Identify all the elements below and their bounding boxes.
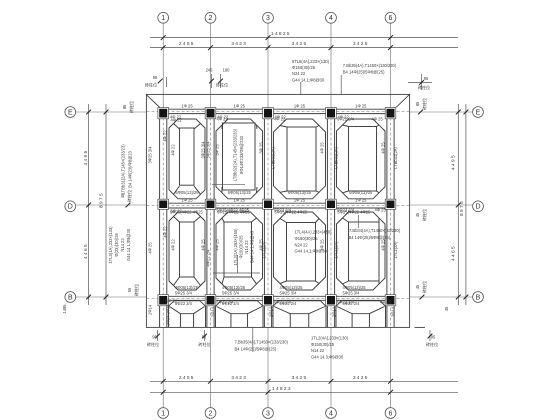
- svg-text:E: E: [68, 109, 73, 116]
- svg-text:Φ(23)(30)/25: Φ(23)(30)/25: [114, 233, 119, 257]
- panel DB bay 34 octagon: [274, 212, 326, 290]
- beam row E: [147, 109, 410, 113]
- svg-text:1Φ 25: 1Φ 25: [234, 103, 246, 108]
- column grid3-D: [263, 199, 274, 209]
- svg-text:4Φ 25: 4Φ 25: [320, 142, 325, 154]
- grid bubble E left: [65, 107, 76, 118]
- panel DB bay 12 octagon: [169, 212, 205, 290]
- dimension chain right: [450, 104, 460, 305]
- brick column mark left E: [122, 101, 134, 113]
- brick column mark left D: [120, 190, 132, 208]
- rebar text 6Φ22 2/4 at 342,304: [343, 301, 361, 306]
- svg-text:Φ150(30)/25: Φ150(30)/25: [295, 236, 319, 241]
- note block bottom TBb35: [235, 328, 289, 353]
- svg-text:45: 45: [444, 306, 449, 311]
- svg-text:Φ150(30)/25: Φ150(30)/25: [292, 65, 316, 70]
- svg-text:1Φ 25: 1Φ 25: [234, 197, 246, 202]
- rebar label 3Φ25 3/4 at 151,155: [148, 146, 153, 164]
- note bay DB46 TBb34: [349, 215, 401, 240]
- rebar label 3Φ 25 at 218,150: [215, 144, 220, 156]
- note block top TBb35: [341, 63, 397, 94]
- rebar label 4Φ 25 at 151,248: [148, 242, 153, 254]
- svg-text:6Φ22 2/4: 6Φ22 2/4: [274, 207, 292, 212]
- beam grid 6: [387, 108, 394, 328]
- column grid2-D: [205, 199, 216, 209]
- rebar text 6Φ05(13)/25 at 239,195: [228, 190, 252, 195]
- svg-text:B4 14Φ(25)/5Φ8@(25): B4 14Φ(25)/5Φ8@(25): [349, 235, 391, 240]
- note block top TL5: [292, 59, 330, 94]
- rebar text 6Φ22 2/4 at 337,211: [337, 207, 355, 212]
- rebar text 6Φ22 2/4 at 216,303: [217, 300, 235, 305]
- rebar text 5Φ25 3/4 at 279,294: [280, 290, 298, 295]
- rebar text 4Φ05(13)/25 at 279,288: [280, 285, 304, 290]
- svg-text:2Φ14: 2Φ14: [148, 304, 153, 315]
- svg-text:4Φ 25: 4Φ 25: [380, 300, 392, 305]
- brick column mark right D: [415, 209, 427, 221]
- svg-text:2Φ14: 2Φ14: [211, 306, 216, 317]
- corner diagonal top-right: [396, 94, 409, 107]
- svg-text:8975: 8975: [99, 192, 105, 208]
- rebar text 6Φ25/4Φ22 4Φ25 at 216,211: [217, 207, 250, 212]
- svg-text:1Φ 25: 1Φ 25: [294, 197, 306, 202]
- svg-text:53: 53: [202, 335, 207, 340]
- svg-text:95: 95: [153, 75, 158, 80]
- svg-text:8Φ14Φ233/Φ8@233: 8Φ14Φ233/Φ8@233: [239, 135, 244, 174]
- beam label LTBb31(2A) at 396,158: [393, 146, 398, 168]
- panel ED bay 34 octagon: [274, 119, 326, 199]
- svg-text:4Φ 22: 4Φ 22: [171, 239, 176, 251]
- svg-text:砖柱位: 砖柱位: [126, 190, 132, 202]
- svg-text:2Φ14: 2Φ14: [391, 306, 396, 317]
- panel ED bay 23 inner rect: [223, 123, 256, 190]
- svg-text:95: 95: [415, 101, 420, 106]
- svg-text:3Φ 25: 3Φ 25: [259, 142, 264, 154]
- svg-text:4Φ 25: 4Φ 25: [381, 239, 386, 251]
- panel ED bay 46 corner diagonals: [343, 125, 380, 193]
- panel DB bay 12 corner diagonals: [174, 217, 201, 286]
- grid bubble 6 top: [385, 12, 396, 23]
- rebar text 1Φ 25 at 239,201: [234, 197, 246, 202]
- rebar text 6Φ 22 at 170,212: [171, 208, 183, 213]
- svg-text:N24 22: N24 22: [292, 71, 306, 76]
- svg-text:14825: 14825: [271, 31, 291, 37]
- note rotated bay ED23 TBb32: [212, 128, 245, 184]
- svg-text:Φ150(30)/25: Φ150(30)/25: [311, 342, 335, 347]
- rebar text 6Φ22 2/4 at 279,304: [280, 301, 298, 306]
- grid bubble 3 bottom: [263, 408, 274, 419]
- rebar label 2Φ14 2Φ14 at 169,315: [166, 304, 171, 326]
- svg-text:6Φ25/4Φ22 4Φ25: 6Φ25/4Φ22 4Φ25: [217, 207, 250, 212]
- rebar text 5Φ25 3/4 at 342,294: [343, 290, 361, 295]
- grid bubble B right: [473, 292, 484, 303]
- grid bubble 6 bottom: [385, 408, 396, 419]
- svg-text:95: 95: [431, 335, 436, 340]
- rebar label 3Φ 25 at 262,148: [259, 142, 264, 154]
- panel ED bay 34 inner rect: [287, 127, 316, 191]
- panel ED bay 34 corner diagonals: [280, 126, 319, 193]
- witness tick right E: [418, 110, 423, 115]
- rebar text 6Φ05(13)/25 at 187,195: [175, 190, 199, 195]
- rebar label 4Φ 22 at 166,136: [163, 130, 168, 142]
- vertical grid line 2: [210, 24, 212, 108]
- brick column mark top grid2 245/190: [206, 68, 231, 89]
- dimension total left: [99, 104, 109, 305]
- rebar text 5Φ25 3/4 at 222,294: [222, 290, 240, 295]
- svg-text:6Φ22 2/4: 6Φ22 2/4: [274, 300, 292, 305]
- beam row B: [147, 296, 410, 300]
- svg-text:1Φ 25: 1Φ 25: [181, 103, 193, 108]
- svg-text:4Φ22 2/4: 4Φ22 2/4: [206, 249, 211, 267]
- rebar text 4Φ 25 at 380,303: [380, 300, 392, 305]
- rebar label 4Φ 25 at 262,245: [259, 239, 264, 251]
- svg-text:砖柱位: 砖柱位: [198, 341, 210, 347]
- rebar text 6Φ25(4Φ22 4Φ25 at 274,213: [275, 209, 309, 214]
- svg-text:190: 190: [223, 68, 231, 73]
- rebar text 1Φ 25 at 187,201: [181, 197, 193, 202]
- svg-text:3Φ25 3/4: 3Φ25 3/4: [148, 146, 153, 164]
- svg-text:2455: 2455: [179, 375, 195, 381]
- rebar text 6Φ 22 at 166,302: [166, 299, 178, 304]
- svg-text:6Φ05(13)/25: 6Φ05(13)/25: [288, 190, 312, 195]
- svg-text:D: D: [475, 204, 480, 211]
- grid bubble 1 top: [158, 12, 169, 23]
- svg-text:6Φ 22: 6Φ 22: [171, 208, 183, 213]
- panel ED bay 46 octagon: [337, 119, 386, 199]
- svg-text:4Φ05(13)/25: 4Φ05(13)/25: [175, 285, 199, 290]
- svg-text:2Φ14 2Φ14: 2Φ14 2Φ14: [166, 304, 171, 326]
- rebar text 6Φ22 2/4 at 337,120: [337, 116, 355, 121]
- rebar text 4Φ 22 at 274,122: [275, 115, 287, 120]
- svg-text:B4 14Φ(25)/5Φ8@(25): B4 14Φ(25)/5Φ8@(25): [235, 347, 277, 352]
- svg-text:4Φ 25: 4Φ 25: [148, 242, 153, 254]
- rebar text 4Φ05(13)/25 at 175,288: [175, 285, 199, 290]
- column grid6-E: [385, 108, 396, 119]
- svg-text:4Φ 22: 4Φ 22: [171, 144, 176, 156]
- panel DB bay 12 inner rect: [180, 222, 195, 277]
- rebar text 6Φ25(4Φ22 4Φ25 at 337,213: [338, 209, 372, 214]
- svg-text:1: 1: [161, 15, 165, 22]
- panel DB bay 46 inner rect: [349, 222, 380, 281]
- svg-text:B: B: [476, 294, 481, 301]
- column grid4-D: [326, 199, 337, 209]
- dimension total bottom: [150, 386, 458, 395]
- svg-text:6: 6: [389, 410, 393, 417]
- panel DB bay 23 octagon: [216, 212, 263, 290]
- horizontal grid line B: [75, 296, 146, 298]
- panel ED bay 23 octagon: [216, 119, 263, 199]
- svg-text:4Φ 25: 4Φ 25: [259, 239, 264, 251]
- panel DB bay 23 corner diagonals: [222, 218, 257, 284]
- column grid2-E: [205, 108, 216, 119]
- svg-text:4Φ 25: 4Φ 25: [375, 207, 387, 212]
- svg-text:3: 3: [266, 410, 270, 417]
- grid bubble 4 top: [326, 12, 337, 23]
- column grid1-D: [158, 199, 169, 209]
- svg-text:4Φ 22: 4Φ 22: [171, 117, 183, 122]
- dimension total right: [459, 104, 468, 305]
- rebar text 6Φ22 2/4 at 274,303: [274, 300, 292, 305]
- note bay DB34 TL4: [295, 230, 333, 254]
- note block bottom TL2: [311, 336, 349, 360]
- svg-text:砖柱位: 砖柱位: [133, 284, 139, 296]
- svg-text:2: 2: [209, 15, 213, 22]
- svg-text:1TL3(1A),233×(133): 1TL3(1A),233×(133): [108, 226, 113, 264]
- rebar label 2Φ14 at 214,312: [211, 306, 216, 317]
- svg-text:3425: 3425: [353, 41, 369, 47]
- svg-text:4Φ 25: 4Φ 25: [201, 239, 206, 251]
- svg-text:4Φ05(13)/25: 4Φ05(13)/25: [222, 285, 246, 290]
- svg-text:4Φ 22: 4Φ 22: [163, 130, 168, 142]
- panel DB bay 46 corner diagonals: [343, 218, 380, 284]
- bottom strip panel bay 34: [273, 301, 326, 328]
- svg-text:6Φ 22: 6Φ 22: [166, 299, 178, 304]
- beam label 1TL1(2A) at 265,250: [262, 241, 267, 259]
- panel DB bay 34 inner rect: [287, 223, 316, 282]
- brick column mark bottom-right 95: [426, 330, 438, 347]
- dimension chain top: [150, 41, 458, 50]
- grid bubble 1 bottom: [158, 408, 169, 419]
- rebar text 6Φ05(13)/25 at 360,195: [349, 190, 373, 195]
- svg-text:G44 14 1,Φ9@43: G44 14 1,Φ9@43: [250, 230, 255, 263]
- svg-text:4465: 4465: [83, 243, 89, 259]
- rebar text 4Φ05(13)/25 at 342,288: [343, 285, 367, 290]
- svg-text:95: 95: [424, 76, 429, 81]
- svg-text:245: 245: [206, 68, 214, 73]
- svg-text:55: 55: [127, 287, 132, 292]
- svg-text:B: B: [68, 294, 73, 301]
- rebar label 4Φ22 2/4 at 209,258: [206, 249, 211, 267]
- rebar text 6Φ22 1/4 at 337,303: [337, 300, 355, 305]
- vertical grid line 3: [267, 24, 269, 108]
- panel DB bay 46 octagon: [337, 212, 386, 290]
- grid bubble B left: [65, 292, 76, 303]
- svg-text:2Φ14: 2Φ14: [269, 306, 274, 317]
- svg-text:4Φ 22: 4Φ 22: [217, 116, 229, 121]
- column grid1-E: [158, 108, 169, 119]
- bottom edge fragment right: [415, 326, 426, 328]
- svg-text:4495: 4495: [450, 154, 456, 170]
- svg-text:G44 14,1;Φ8@30: G44 14,1;Φ8@30: [292, 77, 325, 82]
- rebar label 4Φ 22 at 174,245: [171, 239, 176, 251]
- svg-text:4Φ 25: 4Φ 25: [381, 142, 386, 154]
- rebar text 4Φ 22 at 170,121: [171, 117, 183, 122]
- column grid2-B: [205, 295, 216, 306]
- rebar text 1Φ 25 at 239,107: [234, 103, 246, 108]
- svg-text:LTBb31(2A): LTBb31(2A): [270, 146, 275, 168]
- dimension total top: [150, 31, 458, 40]
- svg-text:4: 4: [329, 15, 333, 22]
- beam label 1TL1(2A) at 396,250: [393, 241, 398, 259]
- svg-text:4Φ 22: 4Φ 22: [163, 226, 168, 238]
- panel ED bay 23 corner diagonals: [222, 125, 257, 193]
- dimension chain left: [83, 104, 91, 305]
- svg-text:5Φ25 3/4: 5Φ25 3/4: [175, 290, 193, 295]
- rebar label 4Φ 22 at 174,150: [171, 144, 176, 156]
- svg-text:4Φ 25: 4Φ 25: [320, 239, 325, 251]
- rebar text 4Φ 22 at 216,120: [217, 116, 229, 121]
- beam label 1TL1(2A) at 337,250: [333, 241, 338, 259]
- bottom strip panel bay 23: [216, 301, 264, 328]
- svg-text:1: 1: [161, 410, 165, 417]
- rebar text 6Φ22 2/4 at 222,304: [222, 301, 240, 306]
- vertical grid line 1: [162, 24, 164, 108]
- svg-text:G44 14 1;Φ9@30: G44 14 1;Φ9@30: [126, 228, 131, 261]
- svg-text:4Φ 25: 4Φ 25: [372, 116, 384, 121]
- rebar text 4Φ 22 at 217,122: [217, 115, 229, 120]
- rebar label 4Φ 25 at 323,245: [320, 239, 325, 251]
- svg-text:D: D: [68, 204, 73, 211]
- rebar text 6Φ22 2/4 at 274,211: [274, 207, 292, 212]
- svg-text:3423: 3423: [231, 375, 247, 381]
- rebar text 5Φ25 3/4 at 175,294: [175, 290, 193, 295]
- bottom strip panel bay 46: [336, 301, 386, 328]
- svg-text:2: 2: [209, 410, 213, 417]
- note rotated bay DB23 TL2: [213, 228, 260, 273]
- grid bubble E right: [473, 107, 484, 118]
- svg-text:4Φ 25: 4Φ 25: [215, 239, 220, 251]
- grid bubble 2 bottom: [205, 408, 216, 419]
- svg-text:14823: 14823: [272, 386, 292, 392]
- panel DB bay 23 inner rect: [224, 222, 252, 277]
- dimension chain bottom: [150, 375, 458, 384]
- rebar text 1Φ 25 at 360,201: [355, 197, 367, 202]
- svg-text:7.Bb34(4A),T1450×(33/230): 7.Bb34(4A),T1450×(33/230): [349, 228, 401, 233]
- svg-text:4465: 4465: [450, 245, 456, 261]
- column grid1-B: [158, 295, 169, 306]
- svg-text:6Φ22 2/4: 6Φ22 2/4: [175, 301, 193, 306]
- rebar text 4Φ 22 at 170,122: [170, 115, 182, 120]
- svg-text:砖柱位: 砖柱位: [216, 82, 228, 88]
- brick column mark top-left 95: [145, 75, 167, 88]
- svg-text:7.Bb35(4A),T1450×(133/230): 7.Bb35(4A),T1450×(133/230): [235, 340, 289, 345]
- grid bubble D right: [473, 201, 484, 212]
- svg-text:45: 45: [415, 212, 420, 217]
- brick column mark right B: [415, 281, 427, 293]
- svg-text:N24 22: N24 22: [295, 242, 309, 247]
- svg-text:砖柱位: 砖柱位: [421, 281, 427, 293]
- svg-text:N14 22: N14 22: [244, 240, 249, 254]
- grid bubble D left: [65, 201, 76, 212]
- svg-text:4495: 4495: [83, 150, 89, 166]
- svg-text:6: 6: [389, 15, 393, 22]
- witness tick right B: [420, 295, 425, 300]
- svg-text:6Φ22 2/4: 6Φ22 2/4: [337, 116, 355, 121]
- rebar text 6Φ25(4Φ22 4Φ25 at 170,213: [170, 209, 204, 214]
- bottom strip panel bay 12: [169, 301, 206, 328]
- brick column mark bottom 53: [198, 330, 210, 347]
- svg-text:1495: 1495: [62, 304, 67, 314]
- rebar text 1Φ 25 at 360,107: [355, 103, 367, 108]
- svg-text:5TL5(4A),233×(130): 5TL5(4A),233×(130): [292, 59, 330, 64]
- rebar label 2Φ14 at 151,310: [148, 304, 153, 315]
- rebar text 4Φ 22 at 337,122: [338, 115, 350, 120]
- svg-text:7.Bb35(4A),T1450×(130/230): 7.Bb35(4A),T1450×(130/230): [343, 63, 397, 68]
- panel ED bay 46 inner rect: [349, 127, 377, 192]
- beam row D: [147, 203, 410, 208]
- brick column mark bottom-left 95: [147, 330, 160, 347]
- note rotated left TL3: [108, 226, 131, 264]
- svg-text:5Φ25 3/4: 5Φ25 3/4: [343, 290, 361, 295]
- rebar label 2Φ14 at 394,312: [391, 306, 396, 317]
- svg-text:3Φ25 3/4: 3Φ25 3/4: [206, 141, 211, 159]
- column grid3-E: [263, 108, 274, 119]
- brick column mark top-right 95: [408, 74, 432, 90]
- rebar label 2Φ14 at 272,312: [269, 306, 274, 317]
- grid bubble 4 bottom: [326, 408, 337, 419]
- svg-text:1TL4(4A),233×(450): 1TL4(4A),233×(450): [295, 230, 333, 235]
- svg-text:砖柱位: 砖柱位: [128, 101, 134, 113]
- svg-text:5Φ25 3/4: 5Φ25 3/4: [222, 290, 240, 295]
- rebar label 3Φ25 3/4 at 204,150: [201, 141, 206, 159]
- column grid6-B: [385, 295, 396, 306]
- svg-text:4Φ05(13)/25: 4Φ05(13)/25: [280, 285, 304, 290]
- svg-text:LTBb32(2A),T145×(233/233): LTBb32(2A),T145×(233/233): [233, 128, 238, 181]
- rebar text 1Φ 25 at 299,201: [294, 197, 306, 202]
- rebar label 4Φ 22 at 166,232: [163, 226, 168, 238]
- svg-text:B4 14Φ(23)/Φ8@23: B4 14Φ(23)/Φ8@23: [128, 150, 133, 187]
- column grid4-E: [326, 108, 337, 119]
- svg-text:95: 95: [122, 104, 127, 109]
- svg-text:Φ150(30)/25: Φ150(30)/25: [239, 235, 244, 259]
- svg-text:4Φ05(13)/25: 4Φ05(13)/25: [343, 285, 367, 290]
- svg-text:1TBb31(2A),T145×(233/23): 1TBb31(2A),T145×(233/23): [121, 144, 126, 195]
- svg-text:砖柱位: 砖柱位: [147, 341, 159, 347]
- rebar label 4Φ 25 at 204,245: [201, 239, 206, 251]
- beam label LTBb31(2A) at 274,158: [270, 146, 275, 168]
- beam label LTBb31(2A) at 337,158: [333, 146, 338, 168]
- rebar label 2Φ14 at 335,312: [332, 306, 337, 317]
- svg-text:LTBb31(2A): LTBb31(2A): [393, 146, 398, 168]
- svg-text:E: E: [476, 109, 481, 116]
- svg-text:3425: 3425: [292, 375, 308, 381]
- rebar text 1Φ 25 at 299,107: [294, 103, 306, 108]
- rebar text 1Φ 25 at 187,107: [181, 103, 193, 108]
- svg-text:1Φ 25: 1Φ 25: [355, 197, 367, 202]
- svg-text:45: 45: [415, 284, 420, 289]
- rebar text 6Φ05(13)/25 at 299,195: [288, 190, 312, 195]
- svg-text:1Φ 25: 1Φ 25: [355, 103, 367, 108]
- svg-text:砖柱位: 砖柱位: [145, 82, 157, 88]
- svg-text:1TL2(4A),233×(130): 1TL2(4A),233×(130): [311, 336, 349, 341]
- panel ED bay 12 inner rect: [180, 128, 195, 185]
- column grid3-B: [263, 295, 274, 306]
- beam grid 1: [160, 108, 167, 328]
- svg-text:1Φ 25: 1Φ 25: [181, 197, 193, 202]
- svg-text:砖柱位: 砖柱位: [421, 98, 427, 110]
- svg-text:砖柱位: 砖柱位: [421, 209, 427, 221]
- svg-text:砖柱位: 砖柱位: [426, 341, 438, 347]
- rebar text 4Φ 22 at 274,120: [274, 116, 286, 121]
- column grid6-D: [385, 199, 396, 209]
- grid bubble 3 top: [263, 12, 274, 23]
- brick column mark left B: [127, 284, 139, 296]
- rebar text 6Φ22 2/4 at 175,304: [175, 301, 193, 306]
- svg-text:LTBb31(2A): LTBb31(2A): [333, 146, 338, 168]
- dimension 1495 left bottom: [62, 304, 67, 314]
- note rotated left TBb31: [121, 144, 133, 195]
- svg-text:砖柱位: 砖柱位: [418, 84, 430, 90]
- slab outline: [146, 94, 409, 327]
- svg-text:6Φ22 1/4: 6Φ22 1/4: [337, 300, 355, 305]
- svg-text:N14 22: N14 22: [311, 348, 325, 353]
- svg-text:6Φ22 2/4: 6Φ22 2/4: [217, 300, 235, 305]
- svg-text:6Φ05(13)/25: 6Φ05(13)/25: [349, 190, 373, 195]
- vertical grid line 6: [390, 24, 392, 108]
- rebar label 4Φ 25 at 323,148: [320, 142, 325, 154]
- column grid4-B: [326, 295, 337, 306]
- rebar label 4Φ 25 at 218,245: [215, 239, 220, 251]
- svg-text:2Φ14: 2Φ14: [332, 306, 337, 317]
